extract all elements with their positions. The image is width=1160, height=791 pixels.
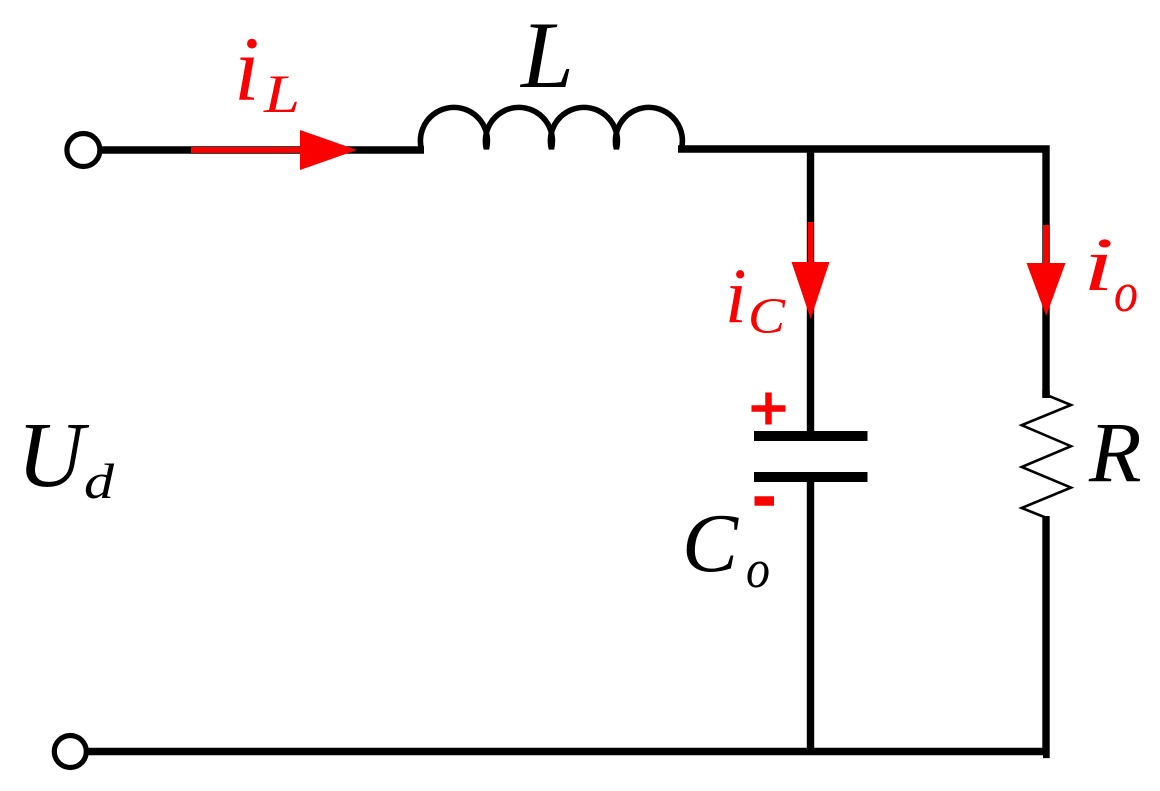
wire bottom: [87, 748, 1049, 755]
svg-text:i: i: [234, 18, 260, 120]
current arrow io (red): [1027, 225, 1066, 316]
svg-text:C: C: [682, 497, 739, 590]
svg-text:i: i: [1083, 223, 1114, 307]
capacitor Co bottom plate: [754, 472, 868, 482]
wire capacitor branch upper: [807, 146, 814, 431]
svg-text:C: C: [748, 289, 786, 345]
svg-text:R: R: [1088, 404, 1142, 500]
svg-text:L: L: [519, 2, 574, 108]
current arrow iC (red): [792, 222, 830, 319]
current arrow iL (red): [191, 130, 357, 170]
svg-text:d: d: [84, 453, 115, 509]
wire resistor branch lower: [1043, 516, 1046, 754]
svg-text:i: i: [725, 252, 747, 339]
label Ud: [17, 404, 115, 509]
label Co: [682, 497, 770, 599]
svg-text:o: o: [746, 539, 770, 599]
polarity minus sign: [755, 496, 775, 506]
terminal T2 (bottom-left open circle): [54, 736, 86, 768]
polarity plus sign: [752, 393, 786, 425]
label iL: [234, 18, 300, 124]
svg-text:o: o: [1114, 262, 1138, 324]
wire top-left segment: [101, 146, 424, 153]
svg-text:U: U: [17, 404, 90, 507]
wire capacitor branch lower: [807, 482, 814, 754]
inductor L (4 humps): [420, 107, 682, 149]
wire top-right segment with corner: [678, 149, 1046, 398]
label io: [1083, 223, 1138, 324]
label iC: [725, 252, 786, 345]
resistor R zigzag: [1022, 395, 1071, 518]
svg-text:L: L: [263, 64, 300, 124]
terminal T1 (top-left open circle): [67, 134, 100, 167]
capacitor Co top plate: [754, 431, 868, 441]
wire resistor branch upper: [1042, 390, 1049, 396]
